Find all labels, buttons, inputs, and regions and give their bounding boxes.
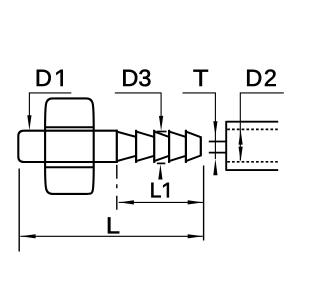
barb taper 2 bottom	[136, 156, 154, 161]
tip tick upper (T extension)	[209, 141, 226, 143]
label D2	[247, 70, 261, 86]
L extension line left	[18, 169, 20, 252]
T arrowhead down	[213, 121, 217, 136]
label D3	[123, 70, 137, 86]
hex nut facet line upper	[45, 126, 94, 128]
L1 dimension line	[119, 201, 203, 203]
D1 arrowhead	[27, 115, 31, 130]
barb taper 3 top	[154, 132, 169, 137]
barb edge 4	[168, 130, 170, 163]
L1 arrowhead right	[188, 200, 203, 204]
D2 arrowhead up	[239, 130, 243, 145]
hex nut outline	[45, 98, 94, 193]
tube inner bore bottom (dashed)	[227, 161, 278, 163]
label T	[193, 70, 207, 86]
barb taper 4 bottom	[169, 156, 186, 161]
barb taper 3 bottom	[154, 156, 169, 161]
D2 leader line	[240, 93, 283, 161]
label L1	[151, 183, 160, 197]
barb edge 5	[185, 130, 187, 163]
L1/L extension line right	[203, 166, 205, 241]
D3 tick lower	[157, 162, 165, 164]
D3 arrowhead down	[159, 116, 163, 131]
L arrowhead left	[20, 234, 35, 238]
tube bottom edge	[226, 169, 278, 171]
L1 arrowhead left	[119, 200, 134, 204]
D2 arrowhead down	[239, 147, 243, 162]
barb taper 5 top	[186, 132, 201, 138]
barb taper 2 top	[136, 132, 154, 137]
D1 leader line	[29, 93, 71, 117]
L dimension line	[20, 235, 202, 237]
D3 leader line	[115, 93, 161, 118]
barb edge 1 (shank end)	[116, 130, 118, 163]
barb edge 3	[153, 130, 155, 163]
D3 arrowhead up	[158, 164, 162, 179]
T leader line	[183, 93, 216, 159]
tube inner bore top (dashed)	[227, 128, 278, 130]
cylinder body (threaded shank, left)	[18, 131, 117, 162]
tube top edge	[226, 121, 278, 123]
T arrowhead up	[213, 159, 217, 175]
tube left face	[225, 121, 227, 171]
tip tick lower (T extension)	[209, 152, 226, 154]
D3 tick upper	[157, 131, 167, 133]
L1 extension line left (dash-dot)	[116, 165, 118, 211]
label L	[108, 217, 119, 233]
L arrowhead right	[188, 234, 203, 238]
barb taper 5 bottom	[186, 156, 201, 162]
barb edge 2	[135, 130, 137, 163]
label D1	[37, 70, 51, 86]
barb taper 1 top	[117, 132, 136, 137]
barb taper 1 bottom	[117, 156, 136, 161]
barb end edge	[200, 136, 202, 156]
hex nut facet line lower	[45, 166, 94, 168]
barb taper 4 top	[169, 132, 186, 137]
